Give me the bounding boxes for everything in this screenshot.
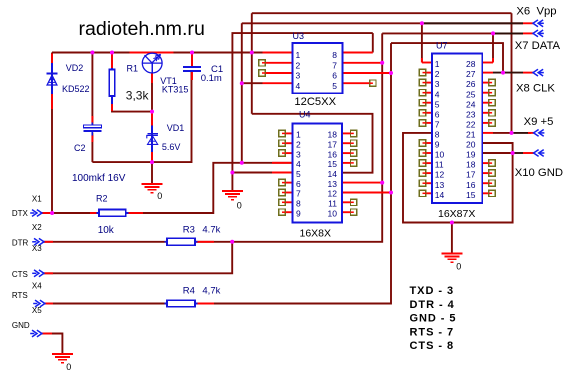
wire red U3 pin8 lead — [343, 52, 373, 54]
wire red U7 pin9 stub — [426, 142, 432, 144]
svg-text:4: 4 — [296, 159, 301, 169]
wire red U7 pin18 stub — [482, 162, 489, 164]
svg-text:27: 27 — [466, 69, 476, 79]
svg-text:6: 6 — [332, 71, 337, 81]
svg-text:X6 Vpp: X6 Vpp — [516, 5, 556, 17]
svg-text:radioteh.nm.ru: radioteh.nm.ru — [79, 18, 205, 40]
node C1 top — [190, 51, 194, 55]
svg-text:12: 12 — [435, 170, 445, 180]
node +5 X9 junction — [510, 131, 514, 135]
svg-text:R1: R1 — [127, 64, 139, 74]
wire red U4 pin8 stub — [285, 201, 292, 203]
svg-text:1: 1 — [296, 130, 301, 140]
wire red U4 pin15 stub — [342, 162, 351, 164]
wire red U4 pin4 lead — [272, 162, 293, 164]
wire red U4 pin13 lead — [342, 182, 382, 184]
svg-text:X1: X1 — [32, 194, 42, 203]
pin 11 U7 terminator — [419, 160, 425, 166]
svg-text:R3: R3 — [183, 225, 195, 236]
pin 14 U7 terminator — [419, 190, 425, 196]
wire red X8 tail — [523, 72, 533, 74]
svg-text:X2: X2 — [32, 223, 42, 232]
wire U3 pin4 from Vpp bus — [242, 82, 263, 84]
wire red U7 pin24 stub — [482, 102, 489, 104]
wire red U7 pin28 lead — [482, 62, 493, 64]
wire DTX line with R2 riser to Vpp node — [41, 212, 99, 214]
svg-text:3: 3 — [296, 149, 301, 159]
wire red U7 pin23 stub — [482, 112, 489, 114]
svg-text:7: 7 — [435, 120, 440, 130]
wire red U3 pin1 lead — [263, 52, 293, 54]
wire red VD1 bottom lead — [151, 152, 153, 161]
svg-text:11: 11 — [328, 199, 337, 209]
wire red R4 right lead — [195, 303, 214, 305]
wire red U4 pin12 lead — [342, 192, 391, 194]
wire red VD1 top lead — [151, 113, 153, 126]
svg-text:26: 26 — [466, 79, 476, 89]
wire red X1 tail — [41, 212, 52, 214]
wire red X10 tail — [523, 152, 534, 154]
wire red U7 pin27 lead — [482, 72, 493, 74]
pin 17 U4 terminator — [351, 140, 357, 146]
svg-text:11: 11 — [435, 160, 444, 170]
svg-text:7: 7 — [332, 60, 337, 70]
wire U7 pin8 ground surround — [403, 133, 513, 223]
svg-text:17: 17 — [466, 170, 476, 180]
pin 25 U7 terminator — [489, 90, 495, 96]
svg-text:X4: X4 — [32, 281, 42, 290]
wire red R1 bottom lead — [111, 104, 113, 111]
connector X8 chevron — [533, 69, 544, 76]
pin numbers U3 right — [332, 50, 337, 91]
svg-text:RTS: RTS — [12, 291, 28, 300]
wire node to VD1 to bottom rail — [151, 112, 153, 163]
svg-text:0.1m: 0.1m — [201, 73, 222, 84]
wire VT1 emitter stem down to node — [151, 73, 153, 111]
pin 4 U7 terminator — [419, 90, 425, 96]
svg-text:C2: C2 — [74, 143, 86, 153]
pin 10 U4 terminator — [351, 209, 357, 215]
svg-text:5: 5 — [435, 99, 440, 109]
svg-text:25: 25 — [466, 89, 476, 99]
wire red rail segment near VT1 — [130, 52, 174, 54]
svg-text:4,7k: 4,7k — [202, 286, 220, 297]
wire Vpp vertical bus — [241, 23, 243, 163]
svg-text:KD522: KD522 — [62, 84, 90, 94]
svg-text:23: 23 — [466, 109, 476, 119]
wire DTR to R3 — [43, 241, 167, 243]
svg-text:16: 16 — [328, 149, 338, 159]
wire DATA branch to U7 pin28 — [492, 33, 494, 62]
node U3 pin7 data bus — [380, 61, 384, 65]
svg-text:TXD - 3: TXD - 3 — [410, 285, 455, 297]
wire red U7 pin25 stub — [482, 92, 489, 94]
svg-text:4.7k: 4.7k — [202, 225, 220, 236]
wire red U3 pin3 lead — [265, 72, 292, 74]
wire red C1 top lead — [191, 54, 193, 66]
pin 5 U3 terminator — [370, 80, 376, 86]
svg-text:0: 0 — [456, 262, 461, 272]
wire U7 pin19 X10 run — [482, 152, 514, 154]
resistor R1 — [109, 68, 115, 104]
pin 6 U7 terminator — [419, 110, 425, 116]
wire red X3 tail — [43, 272, 53, 274]
wire dark lead X8 — [493, 72, 523, 74]
ground under X5 — [52, 354, 73, 363]
wire red U7 pin12 stub — [426, 172, 432, 174]
wire red U7 pin3 stub — [426, 82, 432, 84]
wire CTS branch — [43, 242, 232, 273]
ground under U7 — [441, 254, 462, 263]
pin numbers U7 right — [466, 59, 476, 200]
wire ground to U4 pin5 — [232, 172, 292, 174]
wire red C2 top lead — [91, 116, 93, 123]
wire dark lead X9 — [514, 132, 532, 134]
wire ground stem mid — [231, 173, 233, 191]
wire +5 right drop to X9 — [511, 13, 513, 133]
wire +5 rail top of left block — [52, 52, 293, 54]
wire C1 branch vertical — [191, 53, 193, 66]
wire red VD2 bottom lead — [51, 94, 53, 110]
pin 3 U7 terminator — [419, 79, 425, 85]
op-amp U7 IC body 16X87X — [432, 54, 482, 204]
connector X5 chevron — [30, 330, 42, 337]
wire red U4 pin18 stub — [342, 132, 351, 134]
diode VD2 — [46, 63, 57, 94]
ground under middle bus — [222, 191, 243, 200]
svg-text:R4: R4 — [183, 286, 195, 297]
wire red X6 tail — [523, 22, 533, 24]
wire red R3 right lead — [195, 241, 214, 243]
svg-text:10k: 10k — [98, 225, 115, 236]
pin 1 U4 terminator — [279, 130, 285, 136]
svg-text:6: 6 — [296, 179, 301, 189]
wire CLK top run to U7 pin27 — [391, 43, 503, 73]
svg-text:DTX: DTX — [12, 209, 29, 218]
wire red U7 pin7 stub — [426, 122, 432, 124]
wire red U3 pin4 lead — [263, 82, 293, 84]
wire red U3 pin5 lead — [343, 82, 370, 84]
wire red U3 pin2 lead — [265, 62, 292, 64]
pin 15 U4 terminator — [351, 160, 357, 166]
svg-text:10: 10 — [435, 150, 445, 160]
wire red U4 pin2 stub — [285, 142, 292, 144]
svg-text:12C5XX: 12C5XX — [294, 96, 336, 108]
wire red U4 pin9 stub — [285, 211, 292, 213]
op-amp U4 IC body 16X8X — [293, 123, 343, 222]
svg-text:2: 2 — [296, 139, 301, 149]
wire red U4 pin16 stub — [342, 152, 351, 154]
wire R1 branch — [111, 53, 113, 70]
svg-text:0: 0 — [66, 362, 71, 372]
pin 17 U7 terminator — [489, 170, 495, 176]
svg-text:X10 GND: X10 GND — [515, 167, 563, 179]
svg-text:3: 3 — [296, 71, 301, 81]
svg-text:28: 28 — [466, 59, 476, 69]
wire red VT1 emitter lead — [151, 73, 153, 83]
wire red U7 pin1 lead — [422, 62, 432, 64]
svg-text:CTS: CTS — [12, 270, 28, 279]
wire red U7 pin4 stub — [426, 92, 432, 94]
svg-text:8: 8 — [435, 130, 440, 140]
wire red R2 left lead — [90, 212, 97, 214]
pin 7 U7 terminator — [419, 120, 425, 126]
wire red U7 pin15 stub — [482, 192, 489, 194]
wire red U7 pin14 stub — [426, 192, 432, 194]
svg-text:6: 6 — [435, 109, 440, 119]
svg-text:4: 4 — [435, 89, 440, 99]
svg-text:3: 3 — [435, 79, 440, 89]
connector X4 chevron — [33, 300, 45, 307]
pin 9 U7 terminator — [419, 140, 425, 146]
svg-text:2: 2 — [435, 69, 440, 79]
wire X5 GND to ground — [41, 334, 62, 354]
svg-text:U7: U7 — [436, 40, 448, 50]
svg-text:20: 20 — [466, 140, 476, 150]
svg-text:24: 24 — [466, 99, 476, 109]
wire red R2 right lead — [128, 212, 143, 214]
node Vpp bus bottom — [240, 161, 244, 165]
zener diode VD1 — [147, 125, 158, 152]
svg-text:DTR: DTR — [12, 239, 29, 248]
svg-text:U3: U3 — [293, 31, 305, 41]
wire red U7 pin26 stub — [482, 82, 489, 84]
wire bottom rail of left block — [92, 72, 191, 163]
svg-text:14: 14 — [328, 169, 338, 179]
svg-text:GND - 5: GND - 5 — [410, 313, 457, 325]
wire C2 branch vertical — [91, 53, 93, 125]
wire red U7 pin17 stub — [482, 172, 489, 174]
connector X2 chevron — [32, 238, 44, 245]
svg-text:2: 2 — [296, 60, 301, 70]
node Vpp branch U7 pin1 — [420, 21, 424, 25]
node C2 top — [90, 51, 94, 55]
pin 24 U7 terminator — [489, 100, 495, 106]
svg-text:1: 1 — [435, 59, 440, 69]
pin 3 U3 terminator — [259, 70, 265, 76]
svg-text:5: 5 — [296, 169, 301, 179]
wire U3 pin8 ground run — [232, 33, 372, 172]
svg-text:0: 0 — [157, 191, 162, 201]
wire red U7 pin5 stub — [426, 102, 432, 104]
svg-text:GND: GND — [12, 321, 30, 330]
wire red X2 tail — [43, 241, 53, 243]
svg-text:15: 15 — [328, 159, 338, 169]
wire red U4 pin10 stub — [342, 211, 351, 213]
wire red X5 tail — [41, 333, 52, 335]
svg-text:X3: X3 — [32, 244, 42, 253]
svg-text:X7 DATA: X7 DATA — [515, 40, 561, 52]
pin 2 U4 terminator — [279, 140, 285, 146]
connector X7 chevron — [533, 30, 544, 37]
node DATA R3 CTS junction — [230, 240, 234, 244]
svg-text:18: 18 — [328, 130, 338, 140]
wire red X4 tail — [44, 303, 53, 305]
wire dark lead X7 — [495, 32, 523, 34]
svg-text:5.6V: 5.6V — [162, 142, 181, 152]
svg-text:RTS - 7: RTS - 7 — [410, 326, 455, 338]
resistor R3 — [164, 238, 197, 245]
svg-text:5: 5 — [332, 81, 337, 91]
svg-text:8: 8 — [332, 50, 337, 60]
wire red U4 pin6 stub — [285, 182, 292, 184]
wire DATA junction to data bus riser — [232, 33, 382, 241]
svg-text:DTR - 4: DTR - 4 — [410, 299, 455, 311]
node U3 pin4 Vpp bus — [240, 81, 244, 85]
svg-text:R2: R2 — [96, 193, 108, 203]
svg-text:VD2: VD2 — [66, 63, 84, 73]
wire red U7 pin16 stub — [482, 182, 489, 184]
wire red R1 top lead — [111, 54, 113, 69]
pin 26 U7 terminator — [489, 79, 495, 85]
svg-text:18: 18 — [466, 160, 476, 170]
resistor R4 — [164, 300, 197, 307]
connector X9 chevron — [534, 130, 545, 137]
svg-text:VD1: VD1 — [167, 123, 185, 133]
node VD1 bottom ground — [150, 160, 154, 164]
pin 8 U4 terminator — [279, 199, 285, 205]
svg-text:4: 4 — [296, 81, 301, 91]
wire red U7 pin6 stub — [426, 112, 432, 114]
wire red U3 pin6 lead — [343, 72, 392, 74]
resistor R2 — [96, 210, 128, 217]
svg-text:13: 13 — [435, 180, 445, 190]
wire left vertical from rail to DTX — [51, 53, 53, 214]
wire U7 pin21 X9 mid — [493, 132, 512, 134]
svg-text:17: 17 — [328, 139, 338, 149]
pin 16 U4 terminator — [351, 150, 357, 156]
pin 23 U7 terminator — [489, 110, 495, 116]
svg-text:15: 15 — [466, 190, 476, 200]
connector X1 chevron — [30, 210, 42, 217]
wire red U7 pin22 stub — [482, 122, 489, 124]
svg-text:X9 +5: X9 +5 — [524, 116, 554, 128]
svg-text:10: 10 — [328, 208, 338, 218]
wire DATA top run to X7 — [382, 32, 523, 34]
node +5 rail crossing — [250, 51, 254, 55]
wire red U4 pin7 stub — [285, 192, 292, 194]
node ground bus U4 pin5 — [230, 171, 234, 175]
svg-text:13: 13 — [328, 179, 338, 189]
node U4 pin12 clk bus — [389, 191, 393, 195]
pin 3 U4 terminator — [279, 150, 285, 156]
pin 18 U7 terminator — [489, 160, 495, 166]
svg-text:21: 21 — [466, 130, 476, 140]
svg-text:19: 19 — [466, 150, 476, 160]
wire +5 vertical bus — [251, 13, 253, 114]
pin 7 U4 terminator — [279, 189, 285, 195]
connector X6 chevron — [533, 20, 544, 27]
node U7 ground junction — [450, 221, 454, 225]
svg-text:22: 22 — [466, 120, 476, 130]
svg-text:16: 16 — [466, 180, 476, 190]
svg-text:U4: U4 — [299, 109, 311, 119]
pin 18 U4 terminator — [351, 130, 357, 136]
node U3 pin6 clk bus — [389, 71, 393, 75]
pin 15 U7 terminator — [489, 190, 495, 196]
capacitor C2 — [84, 123, 102, 136]
svg-text:7: 7 — [296, 189, 301, 199]
node GND X10 junction — [511, 151, 515, 155]
svg-text:12: 12 — [328, 189, 338, 199]
wire red U3 pin7 lead — [343, 62, 383, 64]
wire red U4 pin3 stub — [285, 152, 292, 154]
pin 22 U7 terminator — [489, 120, 495, 126]
svg-text:X5: X5 — [32, 306, 42, 315]
node CLK branch U7 pin27 — [501, 71, 505, 75]
pin stub ticks inside terminators — [262, 63, 492, 212]
wire +5 top run — [252, 12, 512, 14]
wire red U4 pin5 lead — [272, 172, 293, 174]
node DTX junction — [50, 211, 54, 215]
pin 13 U7 terminator — [419, 180, 425, 186]
wire red U4 pin11 stub — [342, 201, 351, 203]
svg-text:0: 0 — [237, 201, 242, 211]
svg-text:8: 8 — [296, 199, 301, 209]
wire Vpp branch to U7 pin1 — [421, 23, 423, 62]
pin 6 U4 terminator — [279, 179, 285, 185]
wire red U7 pin10 stub — [426, 152, 432, 154]
pin 12 U7 terminator — [419, 170, 425, 176]
wire red U7 pin11 stub — [426, 162, 432, 164]
svg-text:16X87X: 16X87X — [438, 208, 475, 220]
wire R4 output to CLK riser — [195, 43, 391, 303]
wire red X9 tail — [528, 132, 534, 134]
wire red C2 bottom lead — [91, 135, 93, 142]
wire ground stem left block — [151, 162, 153, 184]
wire R3 output to DATA junction — [195, 241, 232, 243]
pin 5 U7 terminator — [419, 100, 425, 106]
wire red C1 bottom lead — [191, 72, 193, 80]
pin 11 U4 terminator — [351, 199, 357, 205]
wire dark lead X10 — [515, 152, 524, 154]
node R1 top — [110, 51, 114, 55]
ground under left block — [142, 184, 163, 193]
wire red U4 pin17 stub — [342, 142, 351, 144]
svg-text:16X8X: 16X8X — [300, 227, 332, 239]
wire dark lead X6 — [424, 22, 523, 24]
pin 2 U3 terminator — [259, 60, 265, 66]
connector X3 chevron — [32, 270, 44, 277]
svg-text:9: 9 — [296, 208, 301, 218]
wire U7 pin20 to X10 — [482, 143, 512, 153]
pin 9 U4 terminator — [279, 209, 285, 215]
wire red U7 pin2 stub — [426, 72, 432, 74]
pin 2 U7 terminator — [419, 69, 425, 75]
svg-text:CTS - 8: CTS - 8 — [410, 340, 455, 352]
wire +5 to U4 pin14 — [252, 114, 373, 173]
connector X10 chevron — [534, 150, 545, 157]
node R1 base junction — [150, 110, 154, 114]
pin 16 U7 terminator — [489, 180, 495, 186]
node U4 pin13 data bus — [380, 181, 384, 185]
wire U7 ground stem — [451, 223, 453, 254]
pin 10 U7 terminator — [419, 150, 425, 156]
node DATA branch U7 pin28 — [491, 31, 495, 35]
svg-text:1: 1 — [296, 50, 301, 60]
wire Vpp top run to X6 — [242, 22, 523, 24]
svg-text:14: 14 — [435, 190, 445, 200]
wire red X7 tail — [523, 32, 533, 34]
svg-text:3,3k: 3,3k — [126, 89, 150, 103]
wire red VD2 top lead — [51, 54, 53, 64]
wire red U7 pin13 stub — [426, 182, 432, 184]
svg-text:9: 9 — [435, 140, 440, 150]
op-amp U3 IC body 12C5XX — [293, 43, 343, 93]
svg-text:100mkf 16V: 100mkf 16V — [72, 173, 126, 184]
wire RTS to R4 — [44, 303, 167, 305]
wire red U4 pin1 stub — [285, 132, 292, 134]
